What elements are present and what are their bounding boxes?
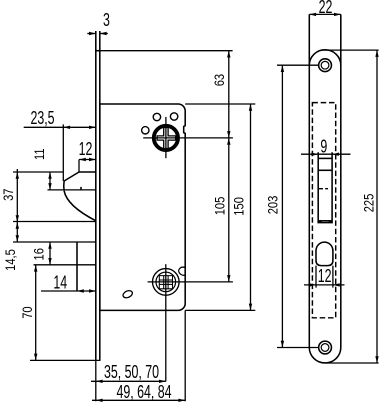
- mounting hole circle c: [142, 127, 149, 134]
- dimension 14,5 arrow bottom: [16, 235, 19, 242]
- svg-text:70: 70: [19, 306, 36, 318]
- extension line deadbolt cutout right: [332, 266, 334, 288]
- dimension text 23,5: [30, 109, 54, 129]
- latch opening rectangle: [318, 152, 332, 222]
- extension line plate bottom apex: [327, 362, 379, 364]
- svg-text:14: 14: [53, 273, 67, 293]
- spindle follower ring: [154, 126, 178, 150]
- mounting hole circle b: [170, 113, 177, 120]
- dimension 63 arrow top: [227, 51, 230, 58]
- latch bolt curved face: [64, 191, 96, 221]
- dimension 3 arrow right: [100, 32, 107, 35]
- dimension 11 line: [49, 172, 51, 190]
- extension line case bottom to 150 dim: [185, 309, 255, 311]
- deadbolt horizontal centerline: [148, 281, 233, 283]
- dimension text 49, 64, 84: [116, 383, 171, 403]
- svg-text:105: 105: [211, 197, 228, 216]
- dimension text 105: [211, 197, 228, 216]
- dimension text 12 right view: [318, 267, 332, 287]
- svg-text:16: 16: [30, 248, 47, 260]
- dimension 35,50,70 arrow right: [159, 380, 166, 383]
- dimension 35,50,70 arrow left: [96, 380, 103, 383]
- hidden lock case outline dashed: [312, 103, 335, 318]
- latch bolt flat top: [79, 171, 96, 173]
- extension line top screw center: [277, 64, 319, 66]
- dimension text 35, 50, 70: [104, 363, 159, 383]
- dimension 22 arrow left: [309, 13, 316, 16]
- svg-text:150: 150: [230, 197, 247, 216]
- deadbolt front face + extension to 14 dim: [76, 242, 78, 291]
- deadbolt cutout obround: [316, 242, 333, 266]
- dimension text 22: [319, 0, 333, 18]
- dimension 37 line: [16, 169, 18, 242]
- latch bolt bevel edge: [64, 172, 79, 181]
- dimension 3 arrow left: [89, 32, 96, 35]
- dimension 70 arrow top: [34, 265, 37, 272]
- dimension 14,5 arrow top: [16, 222, 19, 229]
- key prep outer circle: [153, 269, 180, 296]
- dimension 12 arrow left right view: [309, 283, 316, 286]
- dimension 14 line: [41, 290, 96, 292]
- svg-text:23,5: 23,5: [30, 109, 54, 129]
- latch bolt bottom right foot: [329, 221, 332, 222]
- faceplate top cap: [96, 50, 100, 52]
- dimension 37 arrow top: [16, 172, 19, 179]
- latch opening top edge: [318, 157, 332, 159]
- strike plate left edge + extension: [308, 14, 310, 347]
- dimension 63 arrow bottom: [227, 131, 230, 138]
- svg-text:14,5: 14,5: [2, 249, 19, 271]
- dimension text 11: [30, 148, 47, 160]
- svg-text:22: 22: [319, 0, 333, 18]
- dimension 3 line left segment: [87, 33, 96, 35]
- faceplate side view back edge: [99, 31, 101, 360]
- svg-text:12: 12: [318, 267, 332, 287]
- dimension 16 arrow top: [48, 242, 51, 249]
- dimension 22 arrow right: [334, 13, 341, 16]
- dimension 11 arrow bottom: [48, 183, 51, 190]
- dimension 150 arrow bottom: [249, 304, 252, 311]
- extension line bevel corner: [78, 160, 80, 173]
- dimension 150 line: [250, 104, 252, 310]
- svg-text:9: 9: [320, 137, 327, 157]
- dimension text 37: [0, 189, 16, 201]
- svg-text:225: 225: [360, 194, 377, 213]
- dimension text 150: [230, 197, 247, 216]
- svg-text:3: 3: [103, 11, 110, 31]
- dimension 225 line: [376, 50, 378, 363]
- deadbolt bottom edge + extension: [34, 264, 96, 266]
- dimension text 3: [103, 11, 110, 31]
- dimension 37 arrow bottom: [16, 215, 19, 222]
- latch bolt step tick: [80, 187, 82, 190]
- strike plate bottom rounded end: [309, 348, 341, 363]
- dimension text 63: [211, 74, 228, 86]
- dimension 16 arrow bottom: [48, 258, 51, 265]
- latch bolt hidden bevel line dashed: [319, 188, 328, 190]
- svg-text:49, 64, 84: 49, 64, 84: [116, 383, 171, 403]
- dimension text 203: [264, 196, 281, 215]
- svg-text:37: 37: [0, 189, 16, 201]
- dimension 203 arrow bottom: [281, 341, 284, 348]
- dimension 22 line: [309, 13, 341, 15]
- dimension 49,64,84 line: [92, 399, 185, 401]
- svg-text:12: 12: [79, 140, 93, 160]
- deadbolt top edge + extension: [13, 241, 96, 243]
- dimension 225 arrow bottom: [375, 356, 378, 363]
- latch bolt tip face: [63, 181, 65, 191]
- spindle square cross outline: [157, 127, 176, 148]
- faceplate side view (left view) front edge: [95, 31, 97, 360]
- dimension 70 arrow bottom: [34, 354, 37, 361]
- dimension 49,64,84 arrow right: [178, 399, 185, 402]
- dimension text 14: [53, 273, 67, 293]
- extension line bottom screw center: [277, 347, 319, 349]
- screw hole top inner: [321, 61, 329, 69]
- dimension 23,5 arrow right: [89, 126, 96, 129]
- extension line plate top apex: [321, 49, 379, 51]
- dimension 14 arrow right: [89, 289, 96, 292]
- extension line case top to 150 dim: [185, 103, 255, 105]
- faceplate bottom cap + extension line for 70 dim: [30, 359, 101, 361]
- dimension text 14,5: [2, 249, 19, 271]
- latch bolt face top edge: [318, 169, 332, 171]
- extension line faceplate front to bottom dims: [95, 360, 97, 401]
- extension line latch tip: [62, 124, 64, 181]
- svg-text:35, 50, 70: 35, 50, 70: [104, 363, 159, 383]
- dimension 12 line right view: [304, 284, 345, 286]
- strike plate right edge + extension: [340, 14, 342, 347]
- dimension text 16: [30, 248, 47, 260]
- dimension 203 line: [281, 65, 283, 347]
- dimension 11 arrow top: [48, 172, 51, 179]
- dimension 225 arrow top: [375, 50, 378, 57]
- latch bolt bottom left foot: [319, 221, 322, 222]
- dimension 63 line: [228, 51, 230, 138]
- screw hole top outer: [319, 59, 332, 72]
- dimension 105 arrow bottom: [227, 275, 230, 282]
- dimension 150 arrow top: [249, 104, 252, 111]
- dimension 105 line: [228, 138, 230, 282]
- extension line deadbolt cutout left: [315, 266, 317, 288]
- dimension 3 line right segment: [100, 33, 108, 35]
- screw hole bottom outer: [319, 341, 332, 354]
- dimension text 12: [79, 140, 93, 160]
- dimension 12 arrow right: [89, 158, 96, 161]
- oblong slot lower-left: [122, 289, 134, 299]
- dimension 12 line: [79, 159, 96, 161]
- dimension 9 arrow left: [311, 153, 318, 156]
- latch bolt inner line: [48, 189, 96, 191]
- dimension 16 line: [49, 242, 51, 265]
- dimension 9 line: [301, 153, 351, 155]
- key prep inner circle: [156, 272, 176, 292]
- dimension text 9: [320, 137, 327, 157]
- svg-text:203: 203: [264, 196, 281, 215]
- extension line latch top: [13, 171, 63, 173]
- extension line plate top to 63 dim: [100, 50, 233, 52]
- extension line case right edge down: [184, 310, 186, 401]
- dimension 49,64,84 arrow left: [96, 399, 103, 402]
- dimension 14 arrow left: [77, 289, 84, 292]
- spindle vertical centerline: [165, 117, 167, 158]
- svg-text:11: 11: [30, 148, 47, 160]
- screw hole bottom inner: [321, 344, 329, 352]
- dimension 70 line: [35, 265, 37, 361]
- dimension 23,5 arrow left: [63, 126, 70, 129]
- oblong slot upper-right (clipped by case edge): [179, 267, 186, 275]
- extension line latch bottom curve end: [13, 221, 96, 223]
- dimension 23,5 line: [24, 126, 96, 128]
- dimension 35,50,70 line: [91, 380, 166, 382]
- spindle horizontal centerline: [143, 137, 233, 139]
- mounting hole circle a: [153, 113, 160, 120]
- dimension 105 arrow top: [227, 138, 230, 145]
- deadbolt vertical centerline / backset axis: [165, 264, 167, 381]
- dimension 12 arrow right right view: [333, 283, 340, 286]
- lock case outline: [100, 104, 185, 310]
- key prep waffle grid: [159, 276, 172, 289]
- strike plate top rounded end: [309, 50, 341, 65]
- dimension 9 arrow right: [332, 153, 339, 156]
- dimension 12 arrow left: [79, 158, 86, 161]
- dimension 203 arrow top: [281, 65, 284, 72]
- svg-text:63: 63: [211, 74, 228, 86]
- dimension text 70: [19, 306, 36, 318]
- latch bolt bottom edge: [318, 220, 332, 222]
- dimension text 225: [360, 194, 377, 213]
